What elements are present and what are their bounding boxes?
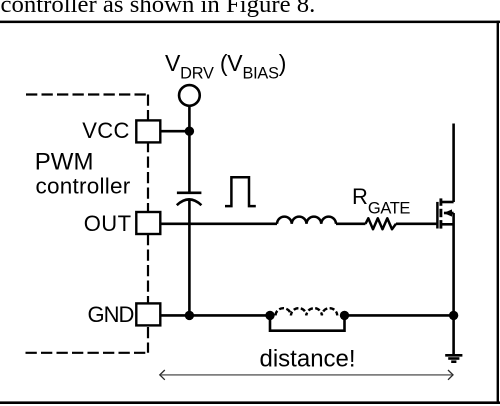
svg-text:VCC: VCC bbox=[82, 118, 130, 143]
svg-text:PWM: PWM bbox=[35, 148, 94, 175]
svg-text:controller as shown in Figure: controller as shown in Figure 8. bbox=[1, 0, 316, 18]
svg-text:OUT: OUT bbox=[84, 211, 132, 236]
svg-text:controller: controller bbox=[36, 174, 131, 199]
svg-text:RGATE: RGATE bbox=[352, 184, 410, 218]
svg-text:VDRV (VBIAS): VDRV (VBIAS) bbox=[165, 50, 286, 82]
svg-text:distance!: distance! bbox=[260, 345, 356, 372]
svg-text:GND: GND bbox=[88, 302, 134, 327]
